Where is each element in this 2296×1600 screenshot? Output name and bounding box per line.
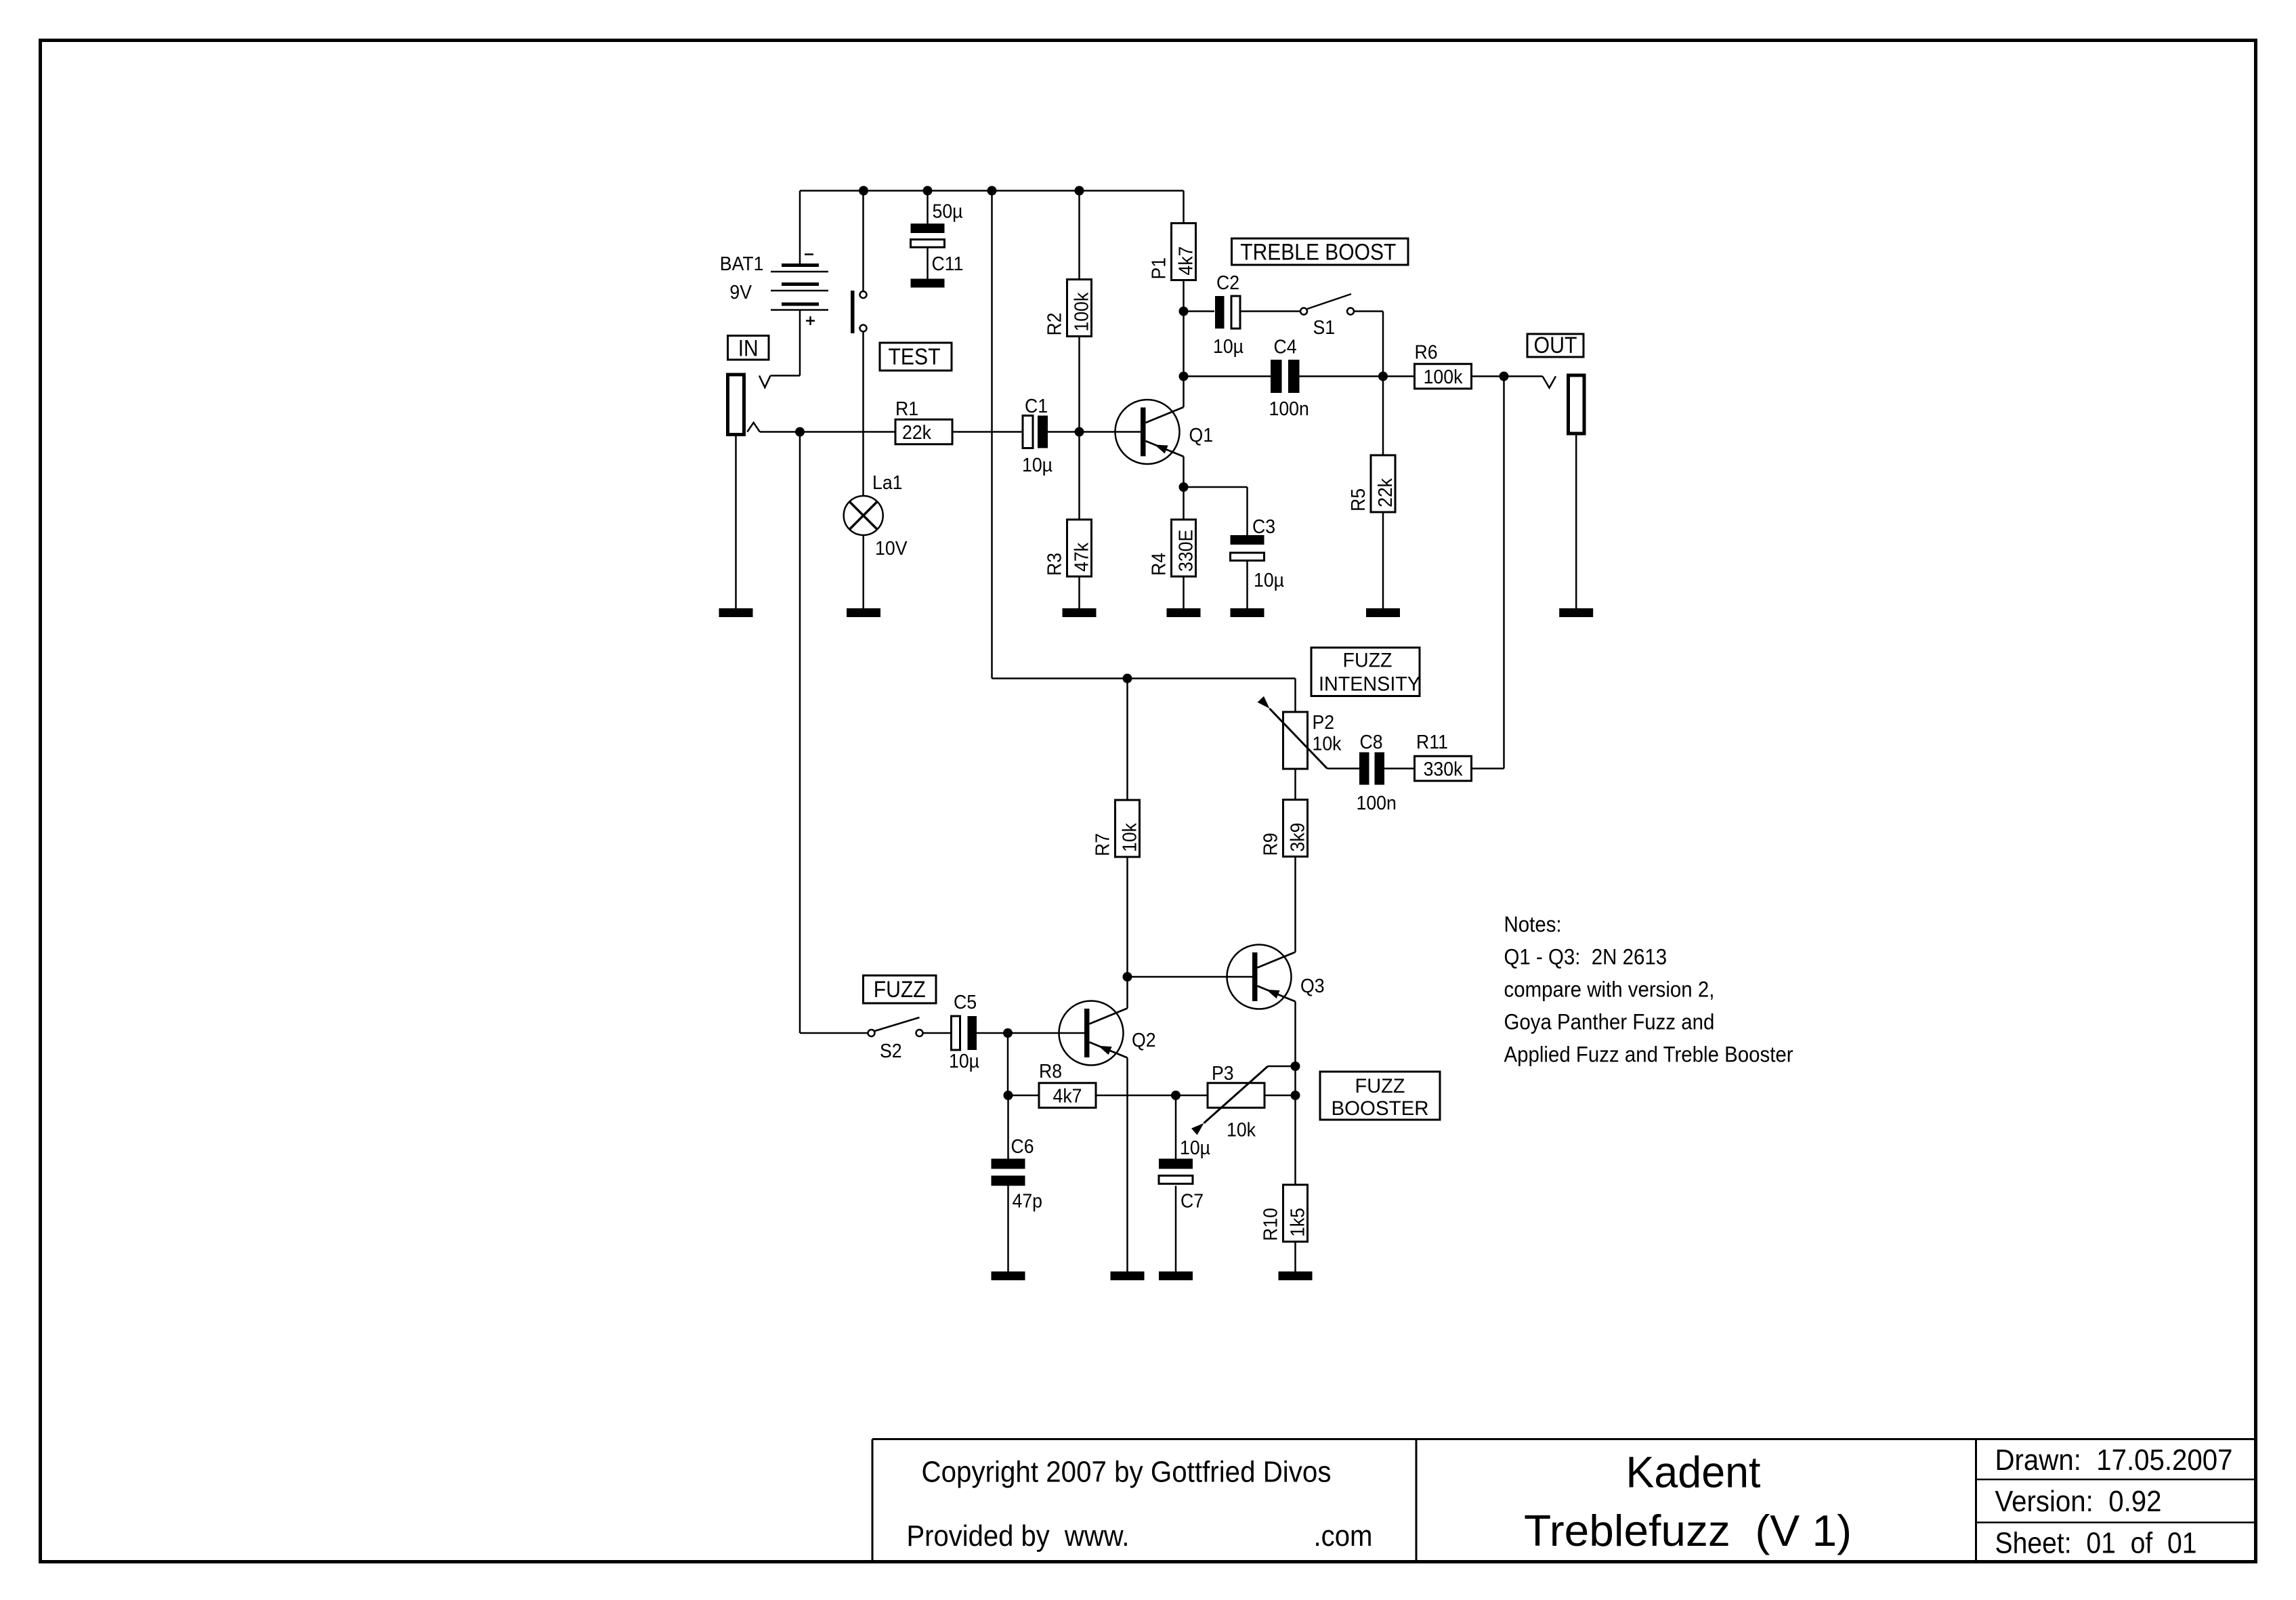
svg-text:La1: La1 bbox=[872, 472, 903, 494]
svg-text:Q1: Q1 bbox=[1189, 425, 1214, 446]
svg-text:Kadent: Kadent bbox=[1626, 1448, 1761, 1497]
svg-text:R7: R7 bbox=[1092, 833, 1114, 856]
svg-text:BAT1: BAT1 bbox=[720, 253, 764, 275]
svg-text:INTENSITY: INTENSITY bbox=[1319, 673, 1420, 696]
svg-text:C11: C11 bbox=[932, 253, 964, 275]
svg-text:10µ: 10µ bbox=[1254, 570, 1284, 591]
svg-text:R3: R3 bbox=[1044, 553, 1066, 576]
svg-text:P2: P2 bbox=[1313, 712, 1335, 734]
svg-text:R11: R11 bbox=[1416, 732, 1448, 753]
svg-text:P3: P3 bbox=[1212, 1063, 1234, 1085]
svg-text:R9: R9 bbox=[1260, 833, 1282, 856]
svg-text:R5: R5 bbox=[1348, 488, 1369, 511]
svg-text:47k: 47k bbox=[1071, 543, 1093, 572]
svg-text:.com: .com bbox=[1314, 1519, 1373, 1553]
svg-text:C2: C2 bbox=[1216, 272, 1239, 294]
svg-text:FUZZ: FUZZ bbox=[1355, 1075, 1405, 1097]
svg-text:IN: IN bbox=[738, 336, 759, 362]
svg-text:3k9: 3k9 bbox=[1288, 823, 1309, 852]
svg-text:10k: 10k bbox=[1120, 823, 1141, 852]
svg-text:4k7: 4k7 bbox=[1176, 247, 1197, 276]
svg-text:R8: R8 bbox=[1039, 1061, 1062, 1082]
svg-text:C1: C1 bbox=[1025, 396, 1048, 417]
svg-text:10k: 10k bbox=[1227, 1120, 1256, 1141]
svg-text:22k: 22k bbox=[902, 422, 931, 444]
svg-text:Sheet: 01 of 01: Sheet: 01 of 01 bbox=[1995, 1527, 2197, 1560]
svg-text:TREBLE BOOST: TREBLE BOOST bbox=[1240, 240, 1396, 266]
svg-text:S1: S1 bbox=[1313, 317, 1336, 339]
svg-text:C6: C6 bbox=[1011, 1136, 1034, 1158]
svg-text:100k: 100k bbox=[1424, 366, 1463, 388]
svg-text:Q1 - Q3: 2N 2613: Q1 - Q3: 2N 2613 bbox=[1504, 945, 1667, 969]
svg-text:C4: C4 bbox=[1274, 337, 1297, 358]
svg-text:C3: C3 bbox=[1252, 516, 1275, 538]
svg-text:TEST: TEST bbox=[889, 344, 941, 370]
svg-text:330E: 330E bbox=[1176, 530, 1197, 572]
svg-text:C5: C5 bbox=[954, 992, 977, 1013]
svg-text:Notes:: Notes: bbox=[1504, 912, 1562, 937]
svg-text:330k: 330k bbox=[1424, 759, 1463, 780]
svg-text:100k: 100k bbox=[1071, 292, 1093, 331]
svg-text:100n: 100n bbox=[1269, 398, 1309, 420]
svg-text:R2: R2 bbox=[1044, 312, 1066, 335]
svg-text:P1: P1 bbox=[1149, 257, 1170, 280]
svg-text:C8: C8 bbox=[1360, 732, 1383, 753]
svg-text:R1: R1 bbox=[895, 398, 918, 420]
svg-text:50µ: 50µ bbox=[933, 201, 963, 223]
svg-text:9V: 9V bbox=[729, 282, 752, 303]
svg-text:Treblefuzz (V 1): Treblefuzz (V 1) bbox=[1524, 1506, 1852, 1555]
svg-text:10µ: 10µ bbox=[949, 1051, 979, 1072]
svg-text:S2: S2 bbox=[880, 1040, 902, 1062]
svg-text:FUZZ: FUZZ bbox=[874, 977, 926, 1003]
svg-text:10µ: 10µ bbox=[1022, 455, 1053, 476]
svg-text:R10: R10 bbox=[1260, 1208, 1282, 1241]
svg-text:BOOSTER: BOOSTER bbox=[1332, 1097, 1429, 1120]
svg-text:Version: 0.92: Version: 0.92 bbox=[1995, 1485, 2162, 1518]
svg-text:47p: 47p bbox=[1013, 1191, 1043, 1213]
svg-text:Drawn: 17.05.2007: Drawn: 17.05.2007 bbox=[1995, 1444, 2233, 1477]
svg-text:Applied Fuzz and Treble Booste: Applied Fuzz and Treble Booster bbox=[1504, 1043, 1793, 1067]
svg-text:10µ: 10µ bbox=[1213, 336, 1243, 358]
svg-text:C7: C7 bbox=[1181, 1191, 1204, 1213]
svg-text:1k5: 1k5 bbox=[1288, 1208, 1309, 1237]
svg-text:FUZZ: FUZZ bbox=[1343, 650, 1393, 672]
svg-text:Goya Panther Fuzz and: Goya Panther Fuzz and bbox=[1504, 1010, 1715, 1034]
svg-text:10k: 10k bbox=[1313, 734, 1342, 755]
svg-text:Q3: Q3 bbox=[1300, 975, 1325, 997]
svg-text:Provided by www.: Provided by www. bbox=[907, 1519, 1130, 1553]
svg-text:Copyright 2007 by Gottfried Di: Copyright 2007 by Gottfried Divos bbox=[922, 1456, 1332, 1489]
svg-text:R4: R4 bbox=[1149, 553, 1170, 576]
svg-text:22k: 22k bbox=[1375, 478, 1397, 507]
svg-text:4k7: 4k7 bbox=[1053, 1086, 1082, 1108]
svg-text:100n: 100n bbox=[1357, 793, 1397, 814]
svg-text:10V: 10V bbox=[875, 538, 908, 560]
svg-text:OUT: OUT bbox=[1534, 333, 1577, 358]
svg-text:Q2: Q2 bbox=[1132, 1030, 1156, 1051]
svg-text:R6: R6 bbox=[1415, 341, 1438, 363]
svg-text:compare with version 2,: compare with version 2, bbox=[1504, 977, 1715, 1002]
svg-text:10µ: 10µ bbox=[1180, 1137, 1210, 1159]
